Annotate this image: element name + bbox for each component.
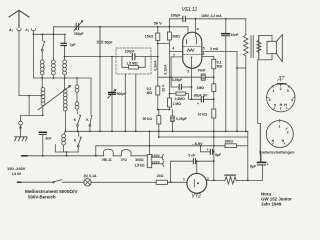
svg-text:H: H bbox=[284, 103, 287, 107]
svg-text:- 8,5V: - 8,5V bbox=[192, 141, 203, 146]
capacitor 500pF (variable) bbox=[111, 57, 113, 132]
wire 5nF left drop bbox=[170, 161, 172, 182]
speaker bbox=[259, 35, 272, 59]
coil L1 lower (tuned, with core arrow) bbox=[41, 78, 43, 88]
wire cathode bus y=77.2 bbox=[158, 76, 214, 78]
terminal A2 bbox=[17, 29, 21, 31]
svg-text:6: 6 bbox=[269, 98, 271, 102]
svg-text:Sockelschaltungen: Sockelschaltungen bbox=[259, 149, 295, 154]
VY2 top lead bbox=[196, 161, 198, 173]
svg-text:0,3mA: 0,3mA bbox=[153, 60, 157, 71]
wire heater return riser bbox=[95, 146, 97, 156]
capacitor 3nF bbox=[39, 131, 46, 133]
svg-text:+: + bbox=[207, 148, 209, 152]
output transformer secondary bbox=[258, 35, 260, 59]
svg-text:50 V: 50 V bbox=[154, 21, 163, 26]
wire pin5 (screen) bbox=[202, 50, 237, 52]
svg-text:+: + bbox=[197, 102, 199, 106]
svg-text:5: 5 bbox=[203, 47, 205, 51]
resistor 18kOhm bbox=[157, 27, 159, 33]
capacitor 100pF (in box) bbox=[116, 56, 158, 58]
bus B y=137 bbox=[159, 136, 248, 138]
resistor 1MOhm (screen) bbox=[212, 84, 216, 92]
svg-text:MΩ: MΩ bbox=[147, 91, 153, 95]
transformer core bbox=[251, 36, 253, 58]
socket VEL11 circle bbox=[267, 84, 295, 112]
capacitor 30uF 8V bbox=[192, 98, 214, 100]
svg-text:VEL11: VEL11 bbox=[182, 7, 198, 13]
svg-text:14 W: 14 W bbox=[12, 171, 22, 176]
svg-text:500V-Bereich: 500V-Bereich bbox=[28, 194, 56, 199]
svg-text:MΩ: MΩ bbox=[217, 64, 223, 68]
svg-text:Д7: Д7 bbox=[277, 76, 286, 82]
tap 220V bbox=[152, 163, 164, 165]
wire junction riser to plug line bbox=[28, 96, 30, 116]
svg-text:4: 4 bbox=[172, 46, 174, 50]
svg-text:10nF: 10nF bbox=[231, 33, 239, 37]
coil L5b bbox=[75, 102, 79, 106]
box drop wires bbox=[125, 74, 136, 131]
terminal A1 bbox=[31, 29, 35, 31]
svg-text:8μF: 8μF bbox=[250, 164, 256, 168]
wire 100pF riser bbox=[168, 19, 170, 27]
capacitor 50pF bbox=[97, 27, 103, 57]
resistor 2MOhm bbox=[168, 27, 170, 32]
svg-text:15kΩ: 15kΩ bbox=[145, 34, 154, 38]
svg-text:+: + bbox=[267, 163, 269, 167]
heater VY2 bbox=[121, 150, 131, 156]
switch K4 bbox=[78, 131, 80, 136]
svg-text:220V: 220V bbox=[152, 160, 161, 164]
capacitor 0,25uF (hatched) bbox=[172, 110, 174, 116]
svg-text:1,5 MΩ: 1,5 MΩ bbox=[126, 61, 137, 65]
resistor 0,3MOhm bbox=[169, 94, 191, 100]
resistor (surge, hatched) bbox=[225, 177, 236, 184]
wire screen feed drop bbox=[236, 51, 238, 131]
antenna bbox=[9, 10, 29, 27]
svg-text:30μF ,8V: 30μF ,8V bbox=[194, 94, 209, 98]
coil L6 (mains filter) bbox=[64, 132, 65, 135]
svg-text:3: 3 bbox=[187, 70, 189, 74]
wire coil B column bbox=[52, 34, 54, 60]
svg-text:100pF: 100pF bbox=[171, 14, 181, 18]
svg-text:185V, 2,2 mA: 185V, 2,2 mA bbox=[201, 14, 222, 18]
heater VEL11 bbox=[103, 149, 113, 156]
svg-text:Jahr 1949: Jahr 1949 bbox=[261, 201, 282, 206]
svg-text:1: 1 bbox=[272, 89, 274, 93]
svg-text:50pF: 50pF bbox=[105, 41, 113, 45]
top bus y=26.8 bbox=[53, 26, 188, 28]
tap 150V bbox=[152, 156, 163, 158]
mains plug / earth lead bbox=[20, 115, 22, 121]
svg-text:50 kΩ: 50 kΩ bbox=[143, 117, 153, 121]
capacitor 100pF (coupling) bbox=[183, 16, 185, 21]
capacitor 0,25uF (cathode) bbox=[171, 86, 191, 88]
output transformer primary bbox=[245, 19, 247, 35]
wire VY2 pin2 bbox=[207, 179, 225, 181]
svg-text:20Ω: 20Ω bbox=[157, 174, 164, 178]
switch K3 bbox=[90, 78, 92, 114]
svg-text:3nF: 3nF bbox=[45, 137, 51, 141]
mains switch bbox=[53, 181, 55, 183]
svg-text:8μF: 8μF bbox=[215, 153, 221, 157]
svg-text:5: 5 bbox=[274, 104, 276, 108]
wire A1 down to bus bbox=[32, 31, 34, 35]
svg-text:150V: 150V bbox=[152, 154, 161, 158]
switch K2 bbox=[78, 115, 81, 124]
bus C (heater line) y=155.8 bbox=[22, 155, 147, 157]
dial lamp bbox=[84, 179, 91, 186]
tube top cap lead bbox=[195, 19, 197, 37]
svg-text:200Ω: 200Ω bbox=[225, 140, 234, 144]
bus A y=131.3 bbox=[65, 130, 247, 132]
mains wire y=182 bbox=[18, 181, 54, 183]
svg-text:1,5 kΩ: 1,5 kΩ bbox=[134, 164, 145, 168]
svg-text:H: H bbox=[280, 103, 283, 107]
svg-text:1: 1 bbox=[183, 178, 185, 182]
svg-text:4V, 0,1A: 4V, 0,1A bbox=[84, 174, 97, 178]
dashed box AGC filter bbox=[116, 48, 151, 74]
svg-text:8: 8 bbox=[203, 52, 205, 56]
capacitor 70nF (inline box) bbox=[201, 74, 205, 80]
resistor 200Ohm bbox=[225, 144, 237, 148]
plug wire y=115.4 bbox=[21, 114, 43, 116]
wire A1 bus y=34.3 bbox=[33, 33, 65, 35]
wire A2 down bbox=[18, 31, 20, 96]
svg-text:100pF: 100pF bbox=[125, 50, 135, 54]
svg-text:0,25μF: 0,25μF bbox=[172, 78, 183, 82]
svg-text:300Ω: 300Ω bbox=[135, 158, 144, 162]
resistor 1MOhm (osc grid) bbox=[168, 51, 170, 98]
resistor 300Ohm/1,5kOhm dropper bbox=[149, 131, 151, 154]
pin3 lead bbox=[191, 56, 193, 58]
wire top bus riser bbox=[52, 27, 54, 34]
capacitor 780pF (variable) bbox=[76, 24, 78, 30]
svg-text:VEL11: VEL11 bbox=[102, 158, 112, 162]
wire filter bottom loop bbox=[55, 145, 78, 153]
svg-text:VY2: VY2 bbox=[191, 194, 201, 200]
svg-text:2: 2 bbox=[280, 87, 282, 91]
line C y=145.8 bbox=[96, 145, 225, 147]
resistor 10kOhm bbox=[212, 109, 216, 118]
svg-text:0,1mA: 0,1mA bbox=[164, 64, 168, 75]
tube VY2 bbox=[187, 173, 207, 193]
wire field coil / filter riser bbox=[258, 60, 261, 162]
resistor 50kOhm bbox=[158, 110, 160, 116]
tube VEL11 envelope bbox=[183, 32, 202, 68]
ground bbox=[15, 137, 28, 141]
svg-text:3 mA: 3 mA bbox=[210, 47, 219, 51]
bus y=56.6 bbox=[65, 56, 116, 58]
capacitor 8uF (second filter) bbox=[257, 161, 265, 163]
wire to output transformer bottom bbox=[237, 67, 246, 69]
coil L5a bbox=[76, 78, 78, 85]
wire grid (pin4) bbox=[158, 44, 183, 52]
svg-text:VY2: VY2 bbox=[121, 158, 128, 162]
resistor 1,5MOhm (in box) bbox=[122, 57, 145, 68]
wire 5nF right riser bbox=[213, 146, 215, 181]
svg-text:1 MΩ: 1 MΩ bbox=[173, 102, 182, 106]
svg-text:H: H bbox=[272, 139, 275, 143]
svg-text:4: 4 bbox=[291, 98, 293, 102]
tube internals bbox=[187, 38, 197, 45]
svg-text:1: 1 bbox=[278, 124, 280, 128]
capacitor 5nF bbox=[171, 160, 214, 162]
wire pin7 bbox=[171, 57, 183, 87]
wire A2 to coil tap bbox=[19, 95, 42, 97]
socket VY2 circle bbox=[266, 121, 293, 148]
coil L2 upper bbox=[52, 60, 56, 64]
resistor 20Ohm bbox=[156, 180, 167, 184]
svg-text:70nF: 70nF bbox=[198, 69, 206, 73]
svg-text:22 V: 22 V bbox=[162, 84, 166, 92]
capacitor 8uF (first filter) bbox=[201, 146, 214, 152]
wire A1 column long drop bbox=[32, 34, 34, 78]
svg-text:a: a bbox=[197, 27, 199, 31]
anode wire y=18.8 bbox=[169, 18, 245, 20]
resistor 0,1MOhm bbox=[212, 59, 216, 69]
capacitor 10nF (anode) bbox=[225, 19, 227, 34]
svg-text:Meßinstrument 5000Ω/V: Meßinstrument 5000Ω/V bbox=[25, 189, 78, 194]
svg-text:780pF: 780pF bbox=[74, 32, 84, 36]
svg-text:0,25μF: 0,25μF bbox=[176, 117, 187, 121]
coil L4 lower (osc, with core arrow) bbox=[64, 78, 66, 89]
mid bus y=78 bbox=[33, 77, 91, 79]
tuning arrow through coils bbox=[38, 86, 71, 111]
resistor 0,2MOhm bbox=[156, 86, 160, 95]
coil L1 upper (antenna coil) bbox=[40, 60, 44, 64]
capacitor 7pF bbox=[61, 34, 67, 56]
wire pin8 bbox=[202, 57, 214, 60]
svg-text:2MΩ: 2MΩ bbox=[172, 34, 180, 38]
node wire y=109.6 bbox=[158, 109, 170, 111]
svg-text:5 nF: 5 nF bbox=[188, 153, 195, 157]
svg-text:7pF: 7pF bbox=[70, 43, 76, 47]
wire rect output loop bbox=[248, 165, 263, 180]
svg-text:3: 3 bbox=[287, 89, 289, 93]
svg-text:10 kΩ: 10 kΩ bbox=[198, 113, 208, 117]
switch K1 bbox=[42, 41, 45, 49]
coil L3 upper bbox=[64, 57, 66, 60]
grid drop to tube bbox=[187, 27, 189, 34]
svg-text:1MΩ: 1MΩ bbox=[197, 86, 205, 90]
svg-text:2: 2 bbox=[287, 130, 289, 134]
wire to switch K1 bbox=[41, 34, 43, 40]
svg-text:0,3MΩ: 0,3MΩ bbox=[175, 97, 186, 101]
